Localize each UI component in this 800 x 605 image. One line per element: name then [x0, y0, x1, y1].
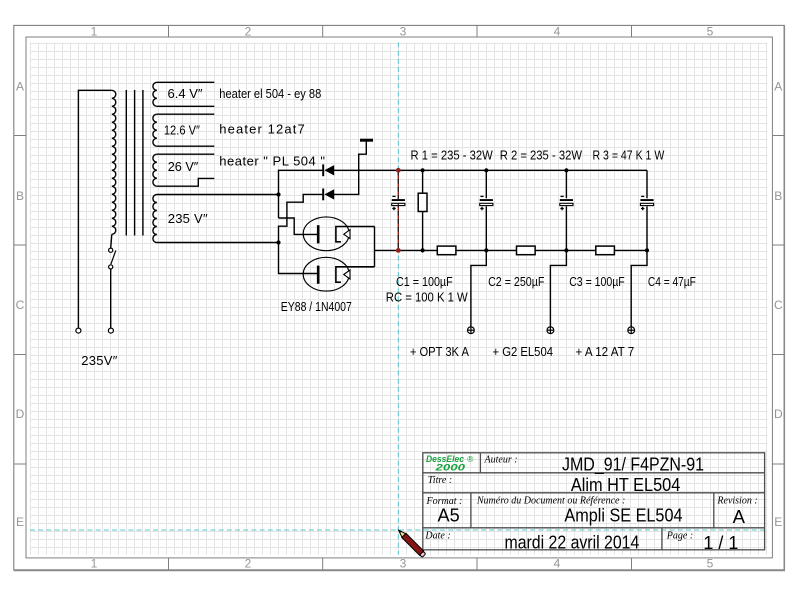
RC bleeder branch [422, 170, 424, 193]
guide crosshair horizontal [30, 529, 767, 531]
svg-text:Titre :: Titre : [428, 475, 452, 486]
junction dot (278.5,194.5) [276, 192, 280, 196]
svg-text:2: 2 [245, 25, 252, 39]
svg-text:C1 = 100µF: C1 = 100µF [396, 274, 453, 289]
capacitor C3 [560, 196, 574, 210]
bottom bus [398, 249, 647, 251]
svg-text:Revision :: Revision : [716, 495, 757, 506]
title block frame [423, 453, 765, 550]
wire 235V bottom to tube V2 cathode [279, 243, 318, 274]
switch SW1 [109, 248, 113, 252]
svg-text:235V″: 235V″ [81, 353, 117, 368]
tube V2 EY88 [303, 257, 374, 291]
pencil cursor [397, 528, 426, 557]
wire rectifier output to node HT [375, 249, 399, 251]
svg-text:3: 3 [400, 25, 407, 39]
svg-text:JMD_91/ F4PZN-91: JMD_91/ F4PZN-91 [562, 454, 704, 476]
svg-text:R 2 = 235 - 32W: R 2 = 235 - 32W [500, 147, 583, 162]
svg-text:A: A [733, 506, 746, 527]
svg-text:235 V″: 235 V″ [168, 211, 208, 226]
wire D2 to chassis stub [334, 141, 366, 194]
svg-text:E: E [16, 515, 24, 529]
svg-text:C4 = 47µF: C4 = 47µF [648, 274, 696, 289]
svg-text:Alim HT EL504: Alim HT EL504 [571, 474, 680, 495]
svg-text:A5: A5 [438, 505, 460, 526]
svg-text:2: 2 [245, 557, 252, 571]
svg-text:1 / 1: 1 / 1 [703, 532, 738, 553]
svg-text:Page :: Page : [666, 531, 693, 542]
terminal G2 [547, 327, 554, 334]
red wire at C1 [397, 170, 399, 250]
svg-text:heater " PL 504 ": heater " PL 504 " [219, 154, 325, 169]
svg-text:®: ® [467, 454, 474, 464]
svg-text:EY88 / 1N4007: EY88 / 1N4007 [281, 299, 352, 314]
svg-text:+ A 12 AT 7: + A 12 AT 7 [576, 344, 635, 359]
junction dot (422.6,170.3) [421, 168, 425, 172]
red node dots [396, 168, 401, 173]
C4 branch [646, 170, 648, 199]
resistor R3 [596, 246, 615, 255]
junction dots [276, 168, 649, 252]
junction dot (566.4,170.3) [564, 168, 568, 172]
junction dot (486.3,170.3) [484, 168, 488, 172]
svg-text:26 V″: 26 V″ [168, 159, 199, 174]
capacitor C4 [640, 196, 654, 210]
svg-text:A: A [16, 79, 24, 93]
svg-text:C: C [774, 298, 783, 312]
svg-text:C2 = 250µF: C2 = 250µF [488, 274, 544, 289]
secondary 12.6V winding [153, 114, 157, 146]
svg-text:A: A [774, 79, 782, 93]
wire D2 to 235V bottom [279, 194, 323, 242]
tube V1 EY88 [303, 217, 374, 251]
svg-text:5: 5 [707, 25, 714, 39]
capacitor C2 [480, 196, 494, 210]
transformer T1 primary [78, 90, 111, 328]
secondary 26V winding [153, 154, 157, 186]
output drop G2 [550, 250, 566, 326]
junction dot (486.3,250.4) [484, 248, 488, 252]
wire tubes anodes junction [374, 227, 376, 267]
svg-text:B: B [16, 189, 24, 203]
resistor R2 [517, 246, 536, 255]
svg-text:heater el 504 - ey 88: heater el 504 - ey 88 [219, 86, 321, 101]
svg-text:4: 4 [554, 25, 561, 39]
output drop OPT [471, 250, 486, 326]
svg-text:RC = 100 K 1 W: RC = 100 K 1 W [386, 290, 469, 305]
terminal OPT [468, 327, 475, 334]
C3 branch [565, 170, 567, 199]
svg-text:1: 1 [91, 557, 98, 571]
output drop 12AT7 [631, 250, 647, 326]
junction dot (278.5,242.5) [276, 240, 280, 244]
svg-text:mardi 22 avril 2014: mardi 22 avril 2014 [505, 531, 640, 552]
svg-text:C: C [16, 298, 25, 312]
resistor RC 100K [418, 193, 427, 211]
mains terminals [76, 328, 81, 333]
junction dot (422.6,250.4) [421, 248, 425, 252]
guide crosshair vertical [397, 42, 399, 554]
diode D2 [322, 189, 324, 201]
svg-text:6.4 V″: 6.4 V″ [168, 86, 203, 101]
svg-text:5: 5 [707, 557, 714, 571]
C2 branch [485, 170, 487, 199]
svg-text:4: 4 [554, 557, 561, 571]
secondary 6.4V winding [153, 82, 157, 106]
svg-text:R 1 = 235 - 32W: R 1 = 235 - 32W [411, 147, 494, 162]
svg-text:D: D [16, 407, 25, 421]
svg-text:Ampli SE EL504: Ampli SE EL504 [564, 505, 682, 526]
wire 235V top to diode D1 row [279, 170, 323, 218]
svg-text:3: 3 [400, 557, 407, 571]
svg-text:Date :: Date : [424, 530, 450, 541]
svg-text:D: D [774, 407, 783, 421]
transformer core [125, 90, 127, 236]
junction dot (647,250.4) [645, 248, 649, 252]
terminal A12AT7 [628, 327, 635, 334]
svg-text:12.6 V″: 12.6 V″ [164, 123, 200, 138]
capacitor C1 [392, 196, 406, 210]
svg-text:1: 1 [91, 25, 98, 39]
svg-text:C3 = 100µF: C3 = 100µF [569, 274, 625, 289]
secondary 235V winding [153, 195, 157, 243]
DessElec 2000 logo [426, 454, 474, 474]
drawing grid [30, 42, 767, 554]
resistor R1 [437, 246, 456, 255]
svg-text:+ OPT 3K A: + OPT 3K A [410, 344, 469, 359]
svg-text:heater 12at7: heater 12at7 [219, 121, 304, 136]
diode D1 [322, 164, 334, 200]
svg-text:Auteur :: Auteur : [484, 454, 518, 465]
svg-text:+ G2 EL504: + G2 EL504 [493, 344, 554, 359]
wire to tube V1 cathode [279, 218, 318, 234]
chassis bar [360, 139, 373, 142]
svg-text:E: E [774, 515, 782, 529]
svg-text:R 3 = 47 K 1 W: R 3 = 47 K 1 W [593, 147, 665, 162]
HT top bus [398, 169, 647, 171]
junction dot (566.4,250.4) [564, 248, 568, 252]
svg-text:2000: 2000 [434, 462, 466, 473]
svg-text:B: B [774, 189, 782, 203]
